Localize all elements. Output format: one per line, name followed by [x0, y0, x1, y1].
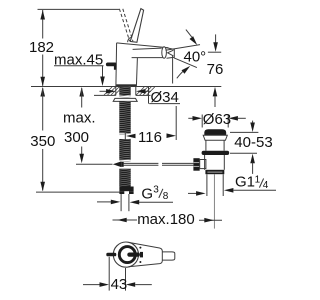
label G38 slash — [159, 189, 163, 198]
deck bottom left — [94, 94, 116, 96]
top view lever tip — [140, 252, 143, 258]
dim 350 bottom tick — [36, 191, 120, 193]
G114 underline — [233, 189, 276, 191]
dia63 arrow right — [228, 116, 238, 121]
dim 350 line upper — [42, 88, 44, 131]
waste body wall left — [204, 155, 206, 170]
dim max300 arrow up — [79, 87, 84, 97]
lever solid — [130, 9, 143, 43]
top view dot lower — [139, 261, 141, 263]
angle ray upper — [166, 45, 201, 51]
plug flange — [203, 135, 227, 140]
dia63 arrow line right — [238, 117, 246, 119]
top view lever bar — [127, 253, 140, 257]
supply nut dark — [119, 187, 133, 192]
dim 4053 upper line — [252, 121, 254, 124]
svg-text:G1: G1 — [235, 174, 255, 191]
svg-text:116: 116 — [138, 129, 162, 146]
max.45 arrow down — [100, 77, 105, 87]
port connector ridge 2 — [194, 165, 200, 167]
deck hole edge left — [115, 87, 117, 96]
svg-text:4: 4 — [263, 180, 269, 191]
dia63 arrow left — [193, 116, 203, 121]
label G114 slash — [259, 179, 263, 188]
tailpipe wall right — [128, 194, 130, 211]
svg-text:43: 43 — [111, 276, 128, 293]
deck hatch right — [140, 87, 148, 95]
rod cone stub — [121, 162, 123, 167]
shank threads in deck — [119, 87, 130, 98]
aerator inner cone — [168, 50, 174, 56]
shank threads upper — [119, 101, 130, 134]
top view pop-up pin — [106, 253, 116, 256]
svg-text:G: G — [141, 186, 153, 203]
mounting washer — [113, 98, 137, 101]
hole dia arrow right — [136, 89, 146, 94]
waste axis line — [213, 174, 215, 228]
top view aerator tip — [162, 252, 175, 260]
angle arrow upper head — [190, 36, 198, 45]
dim max180 line left — [113, 219, 138, 221]
svg-text:40°: 40° — [184, 48, 207, 65]
svg-text:40-53: 40-53 — [234, 134, 272, 151]
dim max300 line upper — [81, 88, 83, 108]
deck hatch left — [111, 87, 119, 95]
top view cartridge ring — [119, 247, 135, 263]
dim 76 arrow down — [213, 42, 218, 52]
waste body wall right — [223, 155, 225, 170]
spout joint ellipse — [162, 47, 167, 58]
body/spout top edge — [117, 43, 169, 48]
dia34 leader vertical — [148, 87, 150, 104]
dim 4053 bottom tick — [230, 152, 257, 154]
port connector ridge 1 — [194, 162, 200, 164]
rod upper line seg2 — [162, 162, 193, 164]
dim 350 arrow up — [40, 87, 45, 97]
plug cap dark — [204, 129, 226, 135]
rod line left — [76, 163, 113, 165]
dim 76 upper line — [215, 34, 217, 42]
svg-text:300: 300 — [64, 129, 89, 146]
svg-text:max.: max. — [63, 110, 96, 127]
body left edge — [115, 43, 118, 86]
waste tailpipe wall left — [206, 174, 208, 196]
deck top line — [31, 86, 221, 88]
dim 4053 arrow down — [250, 123, 255, 133]
G38 underline — [139, 201, 173, 203]
dia63 ext right — [227, 115, 229, 128]
rod cone connector — [113, 161, 122, 167]
dim 182 arrow down — [40, 77, 45, 87]
G38 arrow right — [130, 200, 140, 205]
dia63 arrow line left — [188, 117, 193, 119]
dim116 arrow right — [167, 133, 177, 138]
lever dashed line 1 — [119, 9, 129, 41]
shank threads lower — [119, 169, 130, 188]
dim max300 line lower — [81, 147, 83, 156]
angle arrow upper tail — [186, 30, 192, 37]
G114 arrow right — [224, 188, 234, 193]
dia34 underline — [149, 103, 180, 105]
max.45 leader — [102, 66, 104, 79]
waste tailpipe wall right — [222, 174, 224, 196]
svg-text:350: 350 — [30, 133, 55, 150]
dim 76 lower line — [214, 96, 216, 107]
plug neck right — [223, 140, 225, 150]
dim 182 line lower — [42, 55, 44, 86]
base plate band — [116, 84, 136, 86]
side paddle knob — [106, 62, 117, 69]
svg-text:182: 182 — [29, 39, 54, 56]
deck bottom right — [136, 94, 151, 96]
deck hatch left — [104, 87, 112, 95]
svg-text:3: 3 — [153, 184, 159, 195]
waste bottom band ridge — [207, 171, 222, 173]
svg-text:1: 1 — [255, 175, 261, 186]
lever dashed line 2 — [123, 9, 133, 41]
supply nut lobe right — [129, 191, 134, 194]
dim max180 arrow left — [117, 218, 127, 223]
spout inner top line — [133, 48, 162, 49]
dim 43 arrow right — [126, 282, 136, 287]
dim max300 arrow down — [79, 154, 84, 164]
svg-text:8: 8 — [163, 191, 169, 202]
dim 4053 top tick — [230, 131, 258, 133]
plug neck left — [205, 140, 207, 150]
hole dia arrow left — [106, 89, 116, 94]
top view outer circle — [113, 242, 138, 267]
top view dot upper — [139, 247, 141, 249]
hole dia arrow line right — [145, 90, 151, 92]
deck hole edge right — [135, 87, 137, 96]
dim 4053 lower line — [252, 163, 254, 174]
dim 43 line left — [83, 284, 100, 286]
deck hatch right — [143, 87, 151, 95]
dim 4053 arrow up — [250, 154, 255, 164]
deck hatch left — [115, 87, 123, 95]
aerator tip box — [167, 48, 175, 59]
deck hatch right — [147, 87, 155, 95]
dim 350 arrow down — [40, 182, 45, 192]
dim 76 arrow up — [213, 87, 218, 97]
top view body outline — [129, 242, 163, 266]
shank threads middle — [119, 139, 130, 162]
rod lower line seg2 — [162, 164, 193, 166]
rod port boss — [200, 160, 206, 169]
angle arrow lower tail — [177, 71, 184, 79]
spout bottom edge — [132, 57, 163, 59]
dim max180 arrow right — [204, 218, 214, 223]
svg-text:Ø63: Ø63 — [203, 111, 231, 128]
dim116 ext left tick — [124, 133, 126, 141]
G38 arrow left — [111, 200, 121, 205]
deck hatch right — [136, 87, 144, 95]
dim 43 ext right — [125, 268, 127, 291]
dim116 ext right — [175, 106, 177, 140]
dim 76 top tick — [208, 51, 221, 53]
G114 arrow left — [196, 191, 206, 196]
svg-text:max.180: max.180 — [137, 211, 195, 228]
svg-text:76: 76 — [207, 61, 224, 78]
dim max180 line right — [199, 219, 222, 221]
G114 arrow line left — [188, 192, 197, 194]
body right edge — [136, 58, 137, 87]
angle arrow lower head — [182, 66, 191, 74]
deck hatch left — [108, 87, 116, 95]
dim 350 line lower — [42, 149, 44, 191]
max.45 underline — [54, 65, 104, 67]
lever pivot dome — [128, 38, 137, 43]
rod upper line seg1 — [123, 162, 158, 164]
dim 43 line right — [135, 284, 152, 286]
dim 182 line upper — [42, 10, 44, 39]
dia63 ext left — [201, 115, 203, 128]
hole dia arrow line left — [100, 90, 107, 92]
dim 43 arrow left — [100, 282, 110, 287]
rod lower line seg1 — [123, 164, 158, 166]
waste body bottom band — [205, 170, 224, 174]
angle ray lower — [174, 58, 197, 68]
dim 182 arrow up — [40, 10, 45, 20]
G38 arrow line left — [97, 201, 112, 203]
extension line lever top — [38, 8, 120, 10]
dim116 arrow left — [126, 134, 136, 139]
waste seat flange — [202, 151, 230, 155]
supply nut lobe left — [119, 191, 124, 194]
dim 43 ext left — [108, 257, 110, 291]
spout tip ext line — [172, 56, 174, 84]
rod port connector — [193, 158, 199, 171]
tailpipe wall left — [120, 194, 122, 211]
